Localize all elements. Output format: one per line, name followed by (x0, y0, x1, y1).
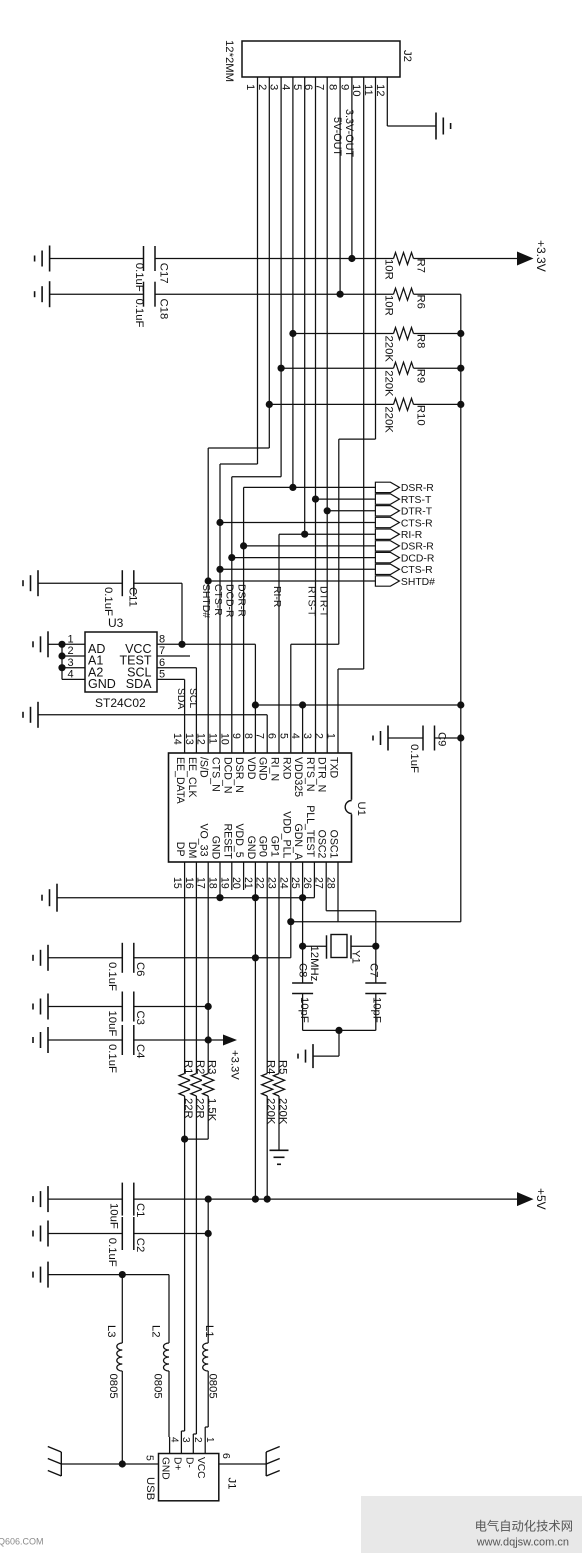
wire gnd to C11 (38, 582, 122, 584)
power +3.3V arrow (517, 252, 534, 266)
wire R5 to ground (278, 1096, 280, 1150)
ground crystal (312, 1044, 314, 1068)
wire DP to USB pin3 (180, 1431, 182, 1454)
svg-text:R10: R10 (415, 405, 427, 426)
ground left of U1 bottom (56, 884, 58, 912)
capacitor C18 (143, 282, 145, 307)
wire DSR-R flag row (244, 486, 376, 488)
wire R4 to +5V rail (266, 1096, 268, 1199)
svg-text:L2: L2 (150, 1325, 162, 1338)
svg-text:RI-R: RI-R (401, 530, 423, 541)
wire gnd to C9 (388, 737, 423, 739)
svg-text:Y1: Y1 (350, 950, 362, 964)
watermark box (361, 1496, 582, 1553)
wire VCC down to VDD rail (254, 644, 256, 705)
wire L3 to shield row (121, 1371, 123, 1464)
svg-text:0805: 0805 (152, 1374, 164, 1399)
svg-text:C3: C3 (134, 1011, 146, 1025)
inductor L2 (164, 1343, 170, 1371)
IC U1 PL2303 body (169, 753, 352, 862)
svg-text:DCD_N: DCD_N (221, 757, 233, 794)
junction bus C9 (457, 734, 464, 741)
svg-text:GND: GND (160, 1457, 171, 1480)
svg-text:220K: 220K (265, 1098, 277, 1125)
wire J2 pin11 down (375, 77, 377, 439)
junction VDD pin8 (252, 701, 259, 708)
wire to USB GND (169, 1437, 171, 1454)
ground C4 (47, 1027, 49, 1053)
capacitor C4 (121, 1025, 123, 1055)
wire shield left (61, 1463, 158, 1465)
svg-text:13: 13 (183, 733, 195, 745)
svg-text:0805: 0805 (107, 1374, 119, 1399)
wire C9 to bus (435, 737, 461, 739)
svg-text:L1: L1 (203, 1325, 215, 1338)
wire DM to USB pin2 (192, 1434, 194, 1454)
resistor R6 (394, 288, 414, 300)
connector J2 body 12*2MM (242, 41, 400, 77)
net flag DSR-R (375, 541, 399, 551)
svg-text:C18: C18 (158, 299, 170, 320)
crystal Y1 (331, 935, 347, 958)
resistor R3 (203, 1074, 214, 1097)
svg-text:C9: C9 (436, 732, 448, 746)
svg-text:0.1uF: 0.1uF (102, 587, 114, 616)
U1 notch (350, 800, 353, 814)
svg-text:DM: DM (186, 842, 198, 858)
wire gnd to C6 (48, 957, 122, 959)
svg-text:6: 6 (220, 1453, 232, 1459)
svg-text:0.1uF: 0.1uF (106, 1044, 118, 1073)
svg-text:1: 1 (244, 84, 256, 90)
svg-text:RTS-T: RTS-T (401, 495, 432, 506)
svg-text:CTS-R: CTS-R (212, 584, 223, 616)
junction L3 top (119, 1271, 126, 1278)
wire C7-C8 tie (303, 1029, 376, 1031)
chassis ground right (265, 1452, 267, 1476)
svg-text:3: 3 (68, 657, 74, 669)
svg-text:L3: L3 (105, 1325, 117, 1338)
wire gnd to C3 (48, 1006, 122, 1008)
wire RXD down to U1 pin5 (290, 644, 292, 753)
svg-text:220K: 220K (383, 370, 395, 397)
wire L1 jog (205, 1426, 208, 1428)
svg-text:R9: R9 (415, 369, 427, 383)
inductor L3 (117, 1343, 123, 1371)
wire RXD column down (338, 439, 340, 644)
svg-text:5: 5 (144, 1455, 156, 1461)
svg-text:R1: R1 (182, 1060, 194, 1074)
wire gnd row (48, 1274, 169, 1276)
svg-text:U3: U3 (108, 616, 124, 630)
svg-text:OSC2: OSC2 (316, 830, 328, 859)
svg-text:12: 12 (195, 733, 207, 745)
junction DCD-R (228, 554, 235, 561)
svg-text:Q606.COM: Q606.COM (0, 1537, 44, 1547)
svg-text:PLL_TEST: PLL_TEST (304, 805, 316, 857)
svg-text:DP: DP (174, 842, 186, 857)
junction bus VDD rail (457, 701, 464, 708)
svg-text:10uF: 10uF (106, 1011, 118, 1037)
svg-text:10pF: 10pF (298, 997, 310, 1023)
wire +5V rail (134, 1198, 517, 1200)
net flag DCD-R (375, 552, 399, 562)
wire to R8 (293, 333, 394, 335)
svg-text:DSR-R: DSR-R (235, 584, 246, 617)
svg-text:5V-OUT: 5V-OUT (331, 117, 343, 156)
wire VDD_5 column down to +5V rail (254, 862, 256, 1199)
wire gnd row below U1 (57, 897, 314, 899)
capacitor C2 (121, 1217, 123, 1250)
svg-text:EE_DATA: EE_DATA (174, 757, 186, 805)
capacitor C1 (121, 1183, 123, 1216)
wire to R9 (281, 367, 393, 369)
svg-text:OSC1: OSC1 (328, 830, 340, 859)
svg-text:SDA: SDA (126, 677, 152, 691)
svg-text:SHTD#: SHTD# (200, 584, 211, 618)
svg-text:/S/D: /S/D (198, 757, 210, 778)
wire DM column (195, 862, 197, 1434)
ground C2 (47, 1221, 49, 1247)
crystal plate left (326, 935, 328, 958)
svg-text:22R: 22R (194, 1098, 206, 1119)
wire DSR-R down to U1 pin9 (243, 487, 245, 753)
wire VDD bus vertical (460, 294, 462, 922)
svg-text:VDD325: VDD325 (292, 757, 304, 797)
wire R8 to bus (414, 333, 461, 335)
capacitor C9 (422, 726, 424, 751)
wire DM jog (193, 1433, 196, 1435)
wire to R10 (269, 403, 393, 405)
svg-text:6: 6 (302, 84, 314, 90)
capacitor C17 (143, 246, 145, 271)
net flag CTS-R (375, 517, 399, 527)
wire R4 column top (266, 862, 268, 1074)
svg-text:4: 4 (289, 733, 301, 739)
svg-text:0.1uF: 0.1uF (106, 1238, 118, 1267)
wire RTS-T flag (316, 498, 376, 500)
svg-text:2: 2 (192, 1437, 203, 1443)
svg-text:0.1uF: 0.1uF (106, 962, 118, 991)
junction crystal left (299, 943, 306, 950)
svg-text:CTS-R: CTS-R (401, 565, 433, 576)
svg-text:R5: R5 (277, 1060, 289, 1074)
svg-text:0.1uF: 0.1uF (133, 299, 145, 328)
svg-text:R2: R2 (194, 1060, 206, 1074)
wire J2 pin7 / DTR-T down to U1 pin2 (326, 77, 328, 753)
ground C1 (47, 1186, 49, 1212)
wire R10 to bus (414, 403, 461, 405)
wire 5V to L1 (207, 1199, 209, 1343)
junction C6 VDD_5 (252, 954, 259, 961)
svg-text:GND: GND (245, 836, 257, 860)
svg-text:DTR-T: DTR-T (317, 586, 328, 618)
svg-text:GP0: GP0 (257, 836, 269, 857)
svg-text:CTS_N: CTS_N (210, 757, 222, 792)
svg-text:SHTD#: SHTD# (401, 577, 435, 588)
wire J2 pin6 / RTS-T down to U1 pin3 (315, 77, 317, 753)
svg-text:RESET: RESET (221, 824, 233, 860)
U1 pin27 down (325, 862, 327, 911)
wire to C8 (302, 946, 304, 983)
svg-text:+3.3V: +3.3V (229, 1050, 241, 1080)
capacitor C8 (292, 982, 313, 984)
svg-text:RI_N: RI_N (269, 757, 281, 781)
svg-text:6: 6 (266, 733, 278, 739)
svg-text:VDD_PLL: VDD_PLL (280, 811, 292, 858)
wire gnd to C17 (50, 258, 144, 260)
svg-text:CTS-R: CTS-R (401, 518, 433, 529)
svg-text:RTS_N: RTS_N (304, 757, 316, 792)
svg-text:DSR-R: DSR-R (401, 542, 434, 553)
svg-text:10R: 10R (383, 295, 395, 316)
ground C11 (37, 570, 39, 596)
svg-text:220K: 220K (383, 336, 395, 363)
wire DP jog (181, 1430, 184, 1432)
ground C6 (47, 945, 49, 971)
U1 pin26 stub to gnd wire (313, 862, 315, 898)
wire VDD_PLL column (290, 862, 292, 958)
svg-text:C1: C1 (134, 1203, 146, 1217)
wire TXD down to U1 pin1 (337, 669, 339, 753)
wire CTS-R column to U1 pin11 (219, 464, 221, 753)
svg-text:DSR-R: DSR-R (401, 483, 434, 494)
svg-text:10uF: 10uF (108, 1203, 120, 1229)
net flag CTS-R (375, 564, 399, 574)
svg-text:12MHz: 12MHz (308, 946, 320, 982)
wire R9 to bus (414, 367, 461, 369)
wire U3 pins1-4 tie (61, 644, 63, 679)
wire DSR-R flag2 (244, 545, 376, 547)
wire pin27 right (326, 910, 376, 912)
ground U1 pin7 (37, 702, 39, 728)
wire C7 bottom (375, 994, 377, 1031)
svg-text:2: 2 (313, 733, 325, 739)
svg-text:+3.3V: +3.3V (534, 240, 548, 272)
junction DTR-T (324, 507, 331, 514)
junction pin25 gnd (299, 894, 306, 901)
svg-text:7: 7 (254, 733, 266, 739)
capacitor C3 (121, 992, 123, 1022)
svg-text:R7: R7 (415, 259, 427, 273)
wire C11 down to U3 VCC (181, 583, 183, 644)
wire R6 to bus (414, 293, 461, 295)
svg-text:RXD: RXD (280, 757, 292, 780)
svg-text:GND: GND (88, 677, 116, 691)
U1 pin19 RESET stub (231, 862, 233, 890)
U3 pin 4 stub (62, 678, 85, 680)
wire down to L3 (121, 1275, 123, 1343)
ground C17 (49, 246, 51, 272)
svg-text:C2: C2 (134, 1238, 146, 1252)
net flag DSR-R (375, 482, 399, 492)
junction 5V usb feed (205, 1196, 212, 1203)
resistor R7 (394, 253, 414, 265)
wire VO_33 column (207, 862, 209, 1139)
svg-text:DCD-R: DCD-R (224, 584, 235, 618)
svg-text:220K: 220K (276, 1098, 288, 1125)
svg-text:ST24C02: ST24C02 (95, 696, 146, 710)
wire SCL down to U1 pin13 (195, 668, 197, 753)
U3 pin 3 stub (62, 667, 85, 669)
wire pin12 to ground (387, 125, 436, 127)
svg-text:4: 4 (68, 669, 74, 681)
junction pin21 gnd (252, 894, 259, 901)
wire pin10 bend left TXD (338, 668, 364, 670)
svg-text:9: 9 (230, 733, 242, 739)
junction DSR-R2 (240, 542, 247, 549)
resistor R5 (273, 1074, 284, 1097)
U3 pin 1 stub (62, 643, 85, 645)
resistor R9 (394, 362, 414, 374)
wire down to U1 pin7 (266, 715, 268, 753)
svg-text:USB: USB (144, 1477, 156, 1500)
junction bus R10 (457, 401, 464, 408)
wire J2 pin4 down to DSR-R tap (292, 77, 294, 487)
svg-text:J1: J1 (226, 1478, 238, 1490)
wire pin3 bend to DCD-R column (232, 476, 281, 478)
svg-text:SCL: SCL (187, 688, 198, 708)
wire gnd to C2 (48, 1233, 122, 1235)
svg-text:5: 5 (277, 733, 289, 739)
svg-text:VCC: VCC (195, 1457, 206, 1479)
junction RTS-T (312, 496, 319, 503)
wire pin2 bend to SHTD# column (208, 447, 269, 449)
svg-text:RTS-T: RTS-T (306, 586, 317, 617)
junction CTS-R2 (216, 566, 223, 573)
wire VDD to U1 pin8 (254, 705, 256, 753)
svg-text:D+: D+ (171, 1457, 182, 1470)
net flag RI-R (375, 529, 399, 539)
junction U3 VCC / C11 (178, 641, 185, 648)
ground below R5 (270, 1149, 289, 1151)
svg-text:1: 1 (68, 634, 74, 646)
ground at J2 pin12 (435, 113, 437, 140)
net flag RTS-T (375, 494, 399, 504)
ground U3 address pins (47, 631, 49, 657)
resistor R4 (262, 1074, 273, 1097)
U3 pin5 SDA stub (157, 678, 185, 680)
wire R3 tie to DP (185, 1138, 209, 1140)
wire C3 to VO_33 (134, 1006, 208, 1008)
capacitor C7 (365, 982, 386, 984)
junction VDD325 pin4 (299, 701, 306, 708)
junction bus R8 (457, 330, 464, 337)
wire J2 pin5 down to RI-R tap (304, 77, 306, 534)
crystal plate right (350, 935, 352, 958)
resistor R10 (394, 398, 414, 410)
power +3.3V arrow down (223, 1035, 237, 1046)
connector J1 USB (159, 1454, 219, 1501)
U3 pin6 SCL stub (157, 667, 196, 669)
svg-text:DTR-T: DTR-T (401, 507, 433, 518)
svg-text:10R: 10R (383, 259, 395, 280)
junction pin8 5V (337, 291, 344, 298)
svg-text:C11: C11 (127, 587, 139, 607)
wire VDD rail (255, 704, 460, 706)
wire C11 to VCC drop (134, 582, 182, 584)
U1 pin20 stub (243, 862, 245, 890)
svg-text:8: 8 (242, 733, 254, 739)
junction bus R9 (457, 365, 464, 372)
wire J2 pin12 down (386, 77, 388, 126)
resistor R1 (179, 1074, 190, 1097)
wire C4 to +3.3V arrow (134, 1039, 223, 1041)
svg-text:EE_CLK: EE_CLK (186, 757, 198, 798)
wire J2 pin3 down (280, 77, 282, 477)
wire DCD-R flag (232, 557, 376, 559)
wire J2 pin8 down to R6 (339, 77, 341, 294)
svg-text:DCD-R: DCD-R (401, 553, 435, 564)
wire crystal gnd stub (338, 1030, 340, 1056)
svg-text:10: 10 (218, 733, 230, 745)
resistor R2 (191, 1074, 202, 1097)
svg-text:电气自动化技术网: 电气自动化技术网 (475, 1519, 573, 1534)
wire gnd to U1 pin7 (38, 714, 267, 716)
wire DCD-R column to U1 pin10 (231, 477, 233, 753)
wire crystal left lead (303, 945, 327, 947)
svg-text:RI-R: RI-R (271, 586, 282, 608)
ground C9 (387, 726, 389, 751)
ground C18 (49, 281, 51, 307)
junction pin24 rail (287, 918, 294, 925)
svg-text:4: 4 (168, 1437, 179, 1443)
wire L2 jog (168, 1436, 171, 1438)
svg-text:U1: U1 (355, 802, 367, 816)
wire J2 pin10 down (363, 77, 365, 669)
wire DTR-T flag (327, 510, 375, 512)
wire DP column (184, 862, 186, 1431)
svg-text:8: 8 (327, 84, 339, 90)
svg-text:C8: C8 (297, 963, 309, 977)
wire L1 bottom (207, 1371, 209, 1427)
capacitor C11 (121, 570, 123, 596)
svg-text:SDA: SDA (175, 688, 186, 709)
wire C18 to R6 (155, 293, 394, 295)
net flag SHTD# (375, 576, 399, 586)
wire C8 bottom (302, 994, 304, 1031)
wire R5 column top (278, 862, 280, 1074)
wire J2 pin2 down (268, 77, 270, 448)
junction SHTD# (205, 577, 212, 584)
wire to USB VCC (204, 1427, 206, 1454)
svg-text:DSR_N: DSR_N (233, 757, 245, 793)
wire U3 gnd stem (48, 643, 62, 645)
wire SHTD# flag (208, 580, 375, 582)
chassis ground left (60, 1452, 62, 1476)
svg-text:220K: 220K (383, 406, 395, 433)
junction crystal gnd (335, 1027, 342, 1034)
svg-text:R4: R4 (265, 1060, 277, 1074)
wire J2 pin9 3.3V down to +3.3V rail (351, 77, 353, 259)
wire crystal right lead (351, 945, 376, 947)
svg-text:GND: GND (257, 757, 269, 781)
U1 pin25 column to crystal left (302, 862, 304, 946)
U1 pin18 GND stub (219, 862, 221, 898)
net flag DTR-T (375, 506, 399, 516)
wire C6 to VDD_PLL (134, 957, 291, 959)
wire down to L2 (168, 1275, 170, 1343)
svg-text:TXD: TXD (328, 757, 340, 779)
junction pin5 RI-R (301, 531, 308, 538)
junction R8 left (289, 330, 296, 337)
wire shield right (219, 1463, 266, 1465)
wire pin1 bend to CTS-R column (220, 463, 258, 465)
junction VDD_5 rail (252, 1196, 259, 1203)
svg-text:0.1uF: 0.1uF (408, 744, 420, 773)
ground shield row (47, 1262, 49, 1288)
svg-text:+5V: +5V (534, 1188, 548, 1210)
